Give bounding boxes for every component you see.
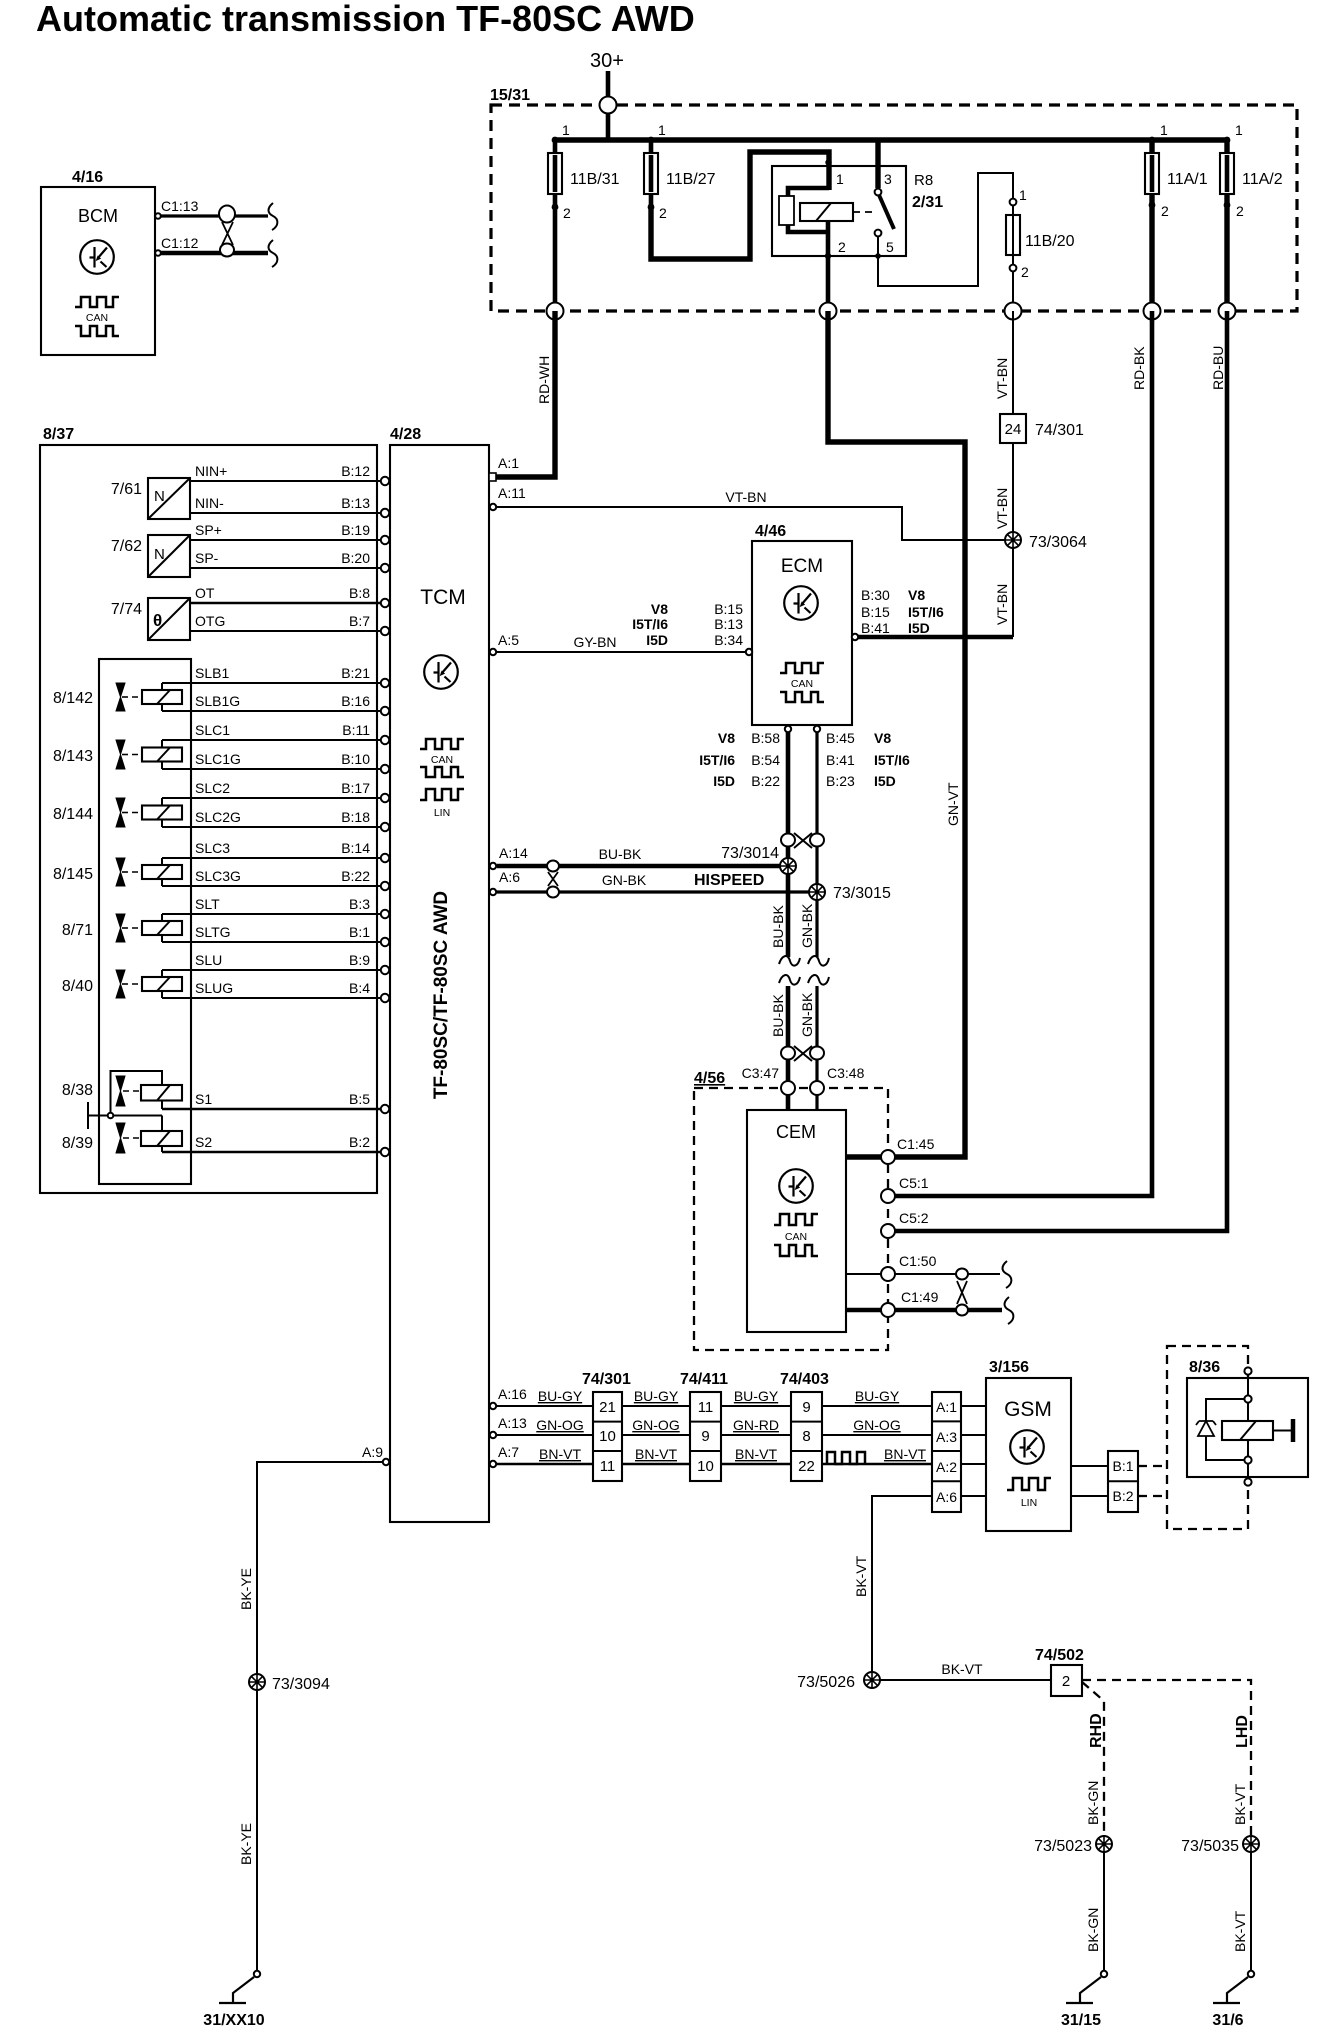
wire SLUG <box>162 997 381 999</box>
svg-text:10: 10 <box>697 1458 714 1475</box>
svg-text:A:14: A:14 <box>499 845 528 861</box>
svg-text:74/411: 74/411 <box>680 1371 728 1388</box>
solenoid 8/145 <box>53 858 182 886</box>
svg-text:CEM: CEM <box>776 1122 816 1142</box>
wire GN-BK (break to CEM C3:48) <box>815 986 818 1110</box>
svg-text:BK-VT: BK-VT <box>853 1555 869 1597</box>
svg-text:B:3: B:3 <box>349 896 370 912</box>
dashed wire RHD <box>1082 1682 1104 1836</box>
wire C5:2 (CEM to RD-BU) <box>888 311 1227 1231</box>
svg-text:74/301: 74/301 <box>582 1371 631 1388</box>
inner solenoid box <box>99 659 191 1184</box>
wire break GN-BK lower <box>808 975 829 985</box>
wire 11B/27 to relay coil pin 1 <box>651 152 829 259</box>
twisted pair symbol ECM CAN <box>781 833 824 848</box>
svg-text:V8: V8 <box>874 730 891 746</box>
svg-text:73/3014: 73/3014 <box>721 845 779 862</box>
svg-text:2: 2 <box>563 205 571 221</box>
svg-text:NIN-: NIN- <box>195 495 224 511</box>
wire VT-BN (TCM A:11 to splice 73/3064) <box>494 507 1005 540</box>
wire SLC1G <box>162 768 381 770</box>
relay pin 3 wire <box>875 140 880 188</box>
svg-text:A:1: A:1 <box>498 455 519 471</box>
wire ECM B:41 to VT-BN <box>855 635 1013 640</box>
wire BK-VT (splice to 74/502) <box>880 1679 1051 1681</box>
svg-text:B:45: B:45 <box>826 730 855 746</box>
svg-text:SLB1G: SLB1G <box>195 693 240 709</box>
wire SLB1G <box>162 710 381 712</box>
wire GY-BN (TCM A:5 to ECM) <box>497 651 746 653</box>
svg-text:2: 2 <box>1021 264 1029 280</box>
svg-text:B:17: B:17 <box>341 780 370 796</box>
splice 73/3094 <box>249 1674 330 1693</box>
wire break symbol C1:13 <box>269 203 278 230</box>
svg-text:I5T/I6: I5T/I6 <box>908 604 944 620</box>
svg-text:B:41: B:41 <box>861 620 890 636</box>
wire SLTG <box>162 941 381 943</box>
relay 8/36 terminal circles <box>1244 1367 1251 1374</box>
K symbol BCM <box>80 240 114 274</box>
wire BU-GY (TCM A:16 to 74/301) <box>497 1405 593 1407</box>
wire GN-VT (relay pin2 to CEM C1:45) <box>828 311 965 1157</box>
wire BCM C1:12 <box>161 251 268 256</box>
svg-text:CAN: CAN <box>431 754 453 766</box>
svg-text:B:4: B:4 <box>349 980 370 996</box>
ground 31/6 <box>1212 1971 1254 2029</box>
svg-text:73/5023: 73/5023 <box>1034 1838 1092 1855</box>
svg-text:BN-VT: BN-VT <box>539 1446 581 1462</box>
svg-text:B:34: B:34 <box>714 632 743 648</box>
svg-text:SLC3G: SLC3G <box>195 868 241 884</box>
svg-text:A:16: A:16 <box>498 1386 527 1402</box>
control module CEM <box>747 1110 846 1332</box>
control module ECM 4/46 <box>752 523 852 725</box>
wire BU-GY (74/301 to 74/411) <box>622 1405 690 1407</box>
connector block B:1/B:2 <box>1108 1451 1138 1512</box>
CAN symbol ECM <box>780 663 824 673</box>
svg-text:RHD: RHD <box>1088 1713 1105 1748</box>
relay 8/36 bypass loop <box>1206 1399 1245 1460</box>
svg-text:73/3064: 73/3064 <box>1029 534 1087 551</box>
junction node S1/S2 common <box>88 1102 162 1129</box>
connector circle GN-VT on fusebox edge <box>820 303 837 320</box>
svg-text:VT-BN: VT-BN <box>994 488 1010 529</box>
svg-text:1: 1 <box>658 122 666 138</box>
wire SP+ <box>190 539 381 541</box>
svg-text:SLB1: SLB1 <box>195 665 229 681</box>
svg-text:BU-GY: BU-GY <box>634 1388 679 1404</box>
wire A:9 (TCM to ground) <box>257 1462 383 1674</box>
svg-text:N: N <box>154 546 165 563</box>
svg-text:4/56: 4/56 <box>694 1070 725 1087</box>
wire NIN+ <box>190 480 381 482</box>
svg-text:C5:2: C5:2 <box>899 1210 929 1226</box>
svg-text:GN-OG: GN-OG <box>853 1417 900 1433</box>
ECM bottom pins <box>785 726 791 732</box>
wire break BU-BK lower <box>779 975 800 985</box>
svg-text:21: 21 <box>599 1399 616 1416</box>
wire 11B/20 pin 2 down <box>1012 271 1014 311</box>
dashed wire LHD <box>1082 1680 1251 1836</box>
fuse 11B/31 <box>548 122 620 311</box>
svg-text:A:13: A:13 <box>498 1415 527 1431</box>
twisted pair symbol at CEM <box>781 1046 824 1061</box>
svg-text:CAN: CAN <box>791 678 813 690</box>
svg-text:B:9: B:9 <box>349 952 370 968</box>
control module BCM 4/16 <box>41 169 155 355</box>
wire SLU <box>162 969 381 971</box>
wire break C1:50 <box>1003 1261 1012 1288</box>
svg-text:RD-WH: RD-WH <box>536 356 552 404</box>
svg-text:CAN: CAN <box>86 312 108 324</box>
fuse 11B/20 <box>1006 187 1075 311</box>
connector 74/403 <box>780 1371 829 1481</box>
svg-text:2: 2 <box>1161 203 1169 219</box>
svg-text:9: 9 <box>802 1399 810 1416</box>
svg-text:SP-: SP- <box>195 550 219 566</box>
svg-text:C1:45: C1:45 <box>897 1136 935 1152</box>
svg-text:CAN: CAN <box>785 1231 807 1243</box>
svg-text:B:12: B:12 <box>341 463 370 479</box>
svg-text:C3:48: C3:48 <box>827 1065 865 1081</box>
svg-text:BN-VT: BN-VT <box>635 1446 677 1462</box>
CAN symbol BCM <box>75 297 119 307</box>
svg-text:4/46: 4/46 <box>755 523 786 540</box>
fuse box 15/31 (dashed enclosure) <box>490 87 1297 311</box>
svg-text:GN-BK: GN-BK <box>799 992 815 1037</box>
svg-text:B:15: B:15 <box>861 604 890 620</box>
fuse 11A/1 <box>1145 122 1208 311</box>
svg-text:B:14: B:14 <box>341 840 370 856</box>
splice 73/3064 <box>1005 532 1087 551</box>
svg-text:11B/31: 11B/31 <box>570 171 620 188</box>
relay R8 2/31 <box>772 140 1013 311</box>
connector 74/502 pin 2 <box>1035 1647 1084 1696</box>
solenoid 8/38 (S1) <box>62 1071 182 1112</box>
svg-text:1: 1 <box>836 171 844 187</box>
wire S2 <box>162 1151 381 1154</box>
svg-text:GN-RD: GN-RD <box>733 1417 779 1433</box>
TCM pin circles B-rows <box>381 477 389 1156</box>
svg-text:1: 1 <box>1019 187 1027 203</box>
svg-text:I5T/I6: I5T/I6 <box>632 616 668 632</box>
svg-text:74/301: 74/301 <box>1035 422 1084 439</box>
svg-text:3: 3 <box>884 171 892 187</box>
svg-text:B:1: B:1 <box>349 924 370 940</box>
svg-text:B:30: B:30 <box>861 587 890 603</box>
svg-text:B:18: B:18 <box>341 809 370 825</box>
wire SLC2 <box>162 797 381 799</box>
svg-text:22: 22 <box>798 1458 815 1475</box>
svg-text:BU-BK: BU-BK <box>770 994 786 1037</box>
svg-text:A:11: A:11 <box>498 485 526 501</box>
svg-text:I5D: I5D <box>908 620 930 636</box>
wire NIN- <box>190 512 381 514</box>
svg-text:BU-GY: BU-GY <box>855 1388 900 1404</box>
wire OTG <box>190 630 381 632</box>
svg-text:B:16: B:16 <box>341 693 370 709</box>
solenoid 8/71 <box>62 914 182 942</box>
wire break BU-BK upper <box>779 956 800 966</box>
svg-text:GY-BN: GY-BN <box>573 634 616 650</box>
wire break C1:49 <box>1005 1297 1014 1324</box>
diode 8/36 <box>1198 1421 1214 1436</box>
connector circle VT-BN on fusebox edge <box>1005 303 1022 320</box>
svg-text:8/37: 8/37 <box>43 426 74 443</box>
svg-text:7/62: 7/62 <box>111 538 142 555</box>
wire GN-BK (ECM B:45 down) <box>815 732 818 957</box>
svg-text:B:15: B:15 <box>714 601 743 617</box>
wire C5:1 (CEM to RD-BK) <box>888 311 1152 1196</box>
svg-text:SLC3: SLC3 <box>195 840 230 856</box>
wire SLT <box>162 913 381 915</box>
svg-text:A:3: A:3 <box>936 1429 957 1445</box>
svg-text:B:20: B:20 <box>341 550 370 566</box>
ECM pin B:41 right <box>852 634 858 640</box>
wire C1:49 <box>846 1308 1002 1313</box>
svg-text:I5T/I6: I5T/I6 <box>699 752 735 768</box>
svg-text:C1:49: C1:49 <box>901 1289 939 1305</box>
svg-text:B:7: B:7 <box>349 613 370 629</box>
wire BK-VT (splice to ground 31/6) <box>1250 1852 1252 1971</box>
svg-text:B:10: B:10 <box>341 751 370 767</box>
wire BU-BK (break to CEM C3:47) <box>786 986 791 1110</box>
svg-text:2: 2 <box>1236 203 1244 219</box>
svg-text:BK-GN: BK-GN <box>1085 1908 1101 1952</box>
svg-text:9: 9 <box>701 1428 709 1445</box>
K symbol GSM <box>1010 1430 1044 1464</box>
splice 73/3015 <box>809 884 891 902</box>
svg-text:BN-VT: BN-VT <box>884 1446 926 1462</box>
K symbol CEM <box>779 1169 813 1203</box>
svg-text:S1: S1 <box>195 1091 212 1107</box>
svg-text:SLTG: SLTG <box>195 924 231 940</box>
svg-text:2: 2 <box>1062 1673 1070 1690</box>
svg-text:B:2: B:2 <box>1112 1488 1133 1504</box>
fuse 11B/27 <box>644 122 716 221</box>
wire BN-VT with LIN pulse (74/403 to GSM A:2) <box>822 1463 932 1466</box>
svg-text:SLC1: SLC1 <box>195 722 230 738</box>
svg-text:RD-BK: RD-BK <box>1131 346 1147 390</box>
svg-text:GN-BK: GN-BK <box>799 903 815 948</box>
svg-text:I5D: I5D <box>646 632 668 648</box>
svg-text:I5D: I5D <box>874 773 896 789</box>
svg-text:BK-GN: BK-GN <box>1085 1781 1101 1825</box>
svg-text:8/142: 8/142 <box>53 690 93 707</box>
svg-text:8/39: 8/39 <box>62 1135 93 1152</box>
svg-text:LIN: LIN <box>1021 1497 1037 1509</box>
wire GSM A:6 to BK-VT <box>872 1496 932 1674</box>
svg-text:10: 10 <box>599 1428 616 1445</box>
wire SP- <box>190 567 381 569</box>
svg-text:B:58: B:58 <box>751 730 780 746</box>
svg-text:GN-VT: GN-VT <box>945 782 961 826</box>
relay armature <box>779 196 794 225</box>
wire GN-OG (TCM A:13 to 74/301) <box>497 1434 593 1436</box>
relay switch contact 3 <box>875 189 882 196</box>
solenoid 8/40 <box>62 970 182 998</box>
svg-text:BU-GY: BU-GY <box>538 1388 583 1404</box>
svg-text:24: 24 <box>1005 421 1022 438</box>
svg-text:VT-BN: VT-BN <box>994 358 1010 399</box>
svg-text:SLC2: SLC2 <box>195 780 230 796</box>
connector circle RD-BU on fusebox edge <box>1219 303 1236 320</box>
svg-text:11A/2: 11A/2 <box>1242 171 1283 188</box>
node 30+ supply <box>590 50 624 140</box>
CEM pin C3:48 circle <box>810 1081 824 1095</box>
control module TCM 4/28 <box>390 426 489 1522</box>
wire BK-GN (splice to ground 31/15) <box>1103 1852 1105 1971</box>
twisted pair symbol HISPEED <box>547 861 559 898</box>
svg-text:74/502: 74/502 <box>1035 1647 1084 1664</box>
svg-text:R8: R8 <box>914 172 933 189</box>
svg-text:C5:1: C5:1 <box>899 1175 929 1191</box>
relay pin 1 marker <box>825 159 831 165</box>
svg-text:SLC2G: SLC2G <box>195 809 241 825</box>
svg-text:8/144: 8/144 <box>53 806 93 823</box>
svg-text:C1:12: C1:12 <box>161 235 199 251</box>
wire SLC2G <box>162 826 381 828</box>
svg-text:B:13: B:13 <box>341 495 370 511</box>
svg-text:GN-OG: GN-OG <box>632 1417 679 1433</box>
svg-text:2: 2 <box>659 205 667 221</box>
svg-text:8/145: 8/145 <box>53 866 93 883</box>
svg-text:BK-YE: BK-YE <box>238 1568 254 1610</box>
wire VT-BN (74/301 to ECM B:41) <box>1012 443 1014 637</box>
dashed connector box 4/56 <box>694 1070 888 1350</box>
svg-text:NIN+: NIN+ <box>195 463 227 479</box>
wire BU-BK (ECM B:58 down) <box>786 732 791 957</box>
svg-text:BU-GY: BU-GY <box>734 1388 779 1404</box>
relay 8/36 dashed enclosure <box>1167 1346 1248 1529</box>
solenoid 8/142 <box>53 683 182 711</box>
twisted pair symbol C1:50/C1:49 <box>956 1269 968 1316</box>
svg-text:B:13: B:13 <box>714 616 743 632</box>
wire VT-BN (11B/20 to splice 73/3064) <box>1012 311 1014 414</box>
solenoid 8/39 (S2) <box>62 1116 182 1154</box>
relay coil winding <box>800 203 853 221</box>
twisted pair symbol BCM <box>219 206 235 257</box>
dashed wire B:2 to 8/36 <box>1138 1495 1167 1497</box>
svg-text:LIN: LIN <box>434 807 450 819</box>
svg-text:B:8: B:8 <box>349 585 370 601</box>
dashed wire B:1 to 8/36 <box>1138 1465 1167 1467</box>
svg-text:A:2: A:2 <box>936 1459 957 1475</box>
svg-text:7/74: 7/74 <box>111 601 142 618</box>
svg-text:73/5035: 73/5035 <box>1181 1838 1239 1855</box>
LIN symbol TCM <box>420 789 464 800</box>
sensor 7/74 (temperature) <box>111 598 190 640</box>
wire SLC1 <box>162 739 381 741</box>
svg-text:4/16: 4/16 <box>72 169 103 186</box>
wire break symbol C1:12 <box>269 240 278 267</box>
svg-text:31/15: 31/15 <box>1061 2012 1101 2029</box>
svg-text:7/61: 7/61 <box>111 481 142 498</box>
wire BN-VT (TCM A:7 to 74/301) <box>497 1463 593 1466</box>
wire SLB1 <box>162 682 381 684</box>
svg-text:TF-80SC/TF-80SC AWD: TF-80SC/TF-80SC AWD <box>431 891 452 1099</box>
wire C1:50 <box>846 1273 1000 1275</box>
svg-text:C3:47: C3:47 <box>742 1065 780 1081</box>
svg-text:4/28: 4/28 <box>390 426 421 443</box>
wire GN-BK HISPEED (TCM A:6 to splice 73/3015) <box>497 890 817 893</box>
svg-text:BK-YE: BK-YE <box>238 1823 254 1865</box>
svg-text:B:2: B:2 <box>349 1134 370 1150</box>
splice 73/3014 <box>721 845 796 874</box>
svg-text:8/71: 8/71 <box>62 922 93 939</box>
CAN symbol CEM <box>774 1214 818 1225</box>
CAN symbol TCM <box>420 739 464 749</box>
connector 74/301 pin 24 <box>1000 414 1084 443</box>
svg-text:SLUG: SLUG <box>195 980 233 996</box>
svg-text:8/143: 8/143 <box>53 748 93 765</box>
relay 8/36 coil <box>1222 1421 1273 1440</box>
svg-text:A:7: A:7 <box>498 1444 519 1460</box>
svg-text:TCM: TCM <box>420 586 466 609</box>
wire stubs GSM cells to GSM <box>961 1406 986 1496</box>
svg-text:B:41: B:41 <box>826 752 855 768</box>
svg-text:30+: 30+ <box>590 50 624 72</box>
svg-text:B:23: B:23 <box>826 773 855 789</box>
relay pin 5 wire <box>878 173 1013 286</box>
wire S1 <box>162 1108 381 1111</box>
connector circle RD-BK on fusebox edge <box>1144 303 1161 320</box>
svg-text:B:54: B:54 <box>751 752 780 768</box>
wire GSM to B:1 <box>1071 1465 1108 1467</box>
sensor 7/62 (N) <box>111 535 190 577</box>
connector circle RD-WH on fusebox edge <box>547 303 564 320</box>
solenoid 8/143 <box>53 740 182 769</box>
svg-text:BCM: BCM <box>78 206 118 226</box>
svg-text:SLC1G: SLC1G <box>195 751 241 767</box>
svg-text:11A/1: 11A/1 <box>1167 171 1208 188</box>
connector block GSM A-pins <box>932 1392 961 1512</box>
svg-text:VT-BN: VT-BN <box>994 584 1010 625</box>
svg-text:5: 5 <box>886 239 894 255</box>
svg-text:V8: V8 <box>908 587 925 603</box>
svg-text:BK-VT: BK-VT <box>1232 1783 1248 1825</box>
fuse 11A/2 <box>1220 122 1283 311</box>
connector 74/411 <box>680 1371 728 1481</box>
svg-text:74/403: 74/403 <box>780 1371 829 1388</box>
connector circle 30+ on fusebox edge <box>600 97 617 114</box>
svg-text:11: 11 <box>600 1458 616 1475</box>
svg-text:2/31: 2/31 <box>912 194 943 211</box>
svg-text:N: N <box>154 488 165 505</box>
wire GN-OG (74/301 to 74/411) <box>622 1434 690 1436</box>
solenoid 8/144 <box>53 798 182 827</box>
CEM pin C1:50 circle <box>881 1267 895 1281</box>
svg-text:2: 2 <box>838 239 846 255</box>
CEM pin C1:49 circle <box>881 1303 895 1317</box>
svg-text:73/3094: 73/3094 <box>272 1676 330 1693</box>
svg-text:B:5: B:5 <box>349 1091 370 1107</box>
svg-text:3/156: 3/156 <box>989 1359 1029 1376</box>
wire BN-VT (74/301 to 74/411) <box>622 1463 690 1466</box>
svg-text:BU-BK: BU-BK <box>599 846 642 862</box>
wire BN-VT (74/411 to 74/403) <box>721 1463 791 1466</box>
sensor 7/61 (N) <box>111 478 190 519</box>
wire BU-BK HISPEED (TCM A:14 to splice 73/3014) <box>497 864 788 869</box>
svg-text:B:1: B:1 <box>1112 1458 1133 1474</box>
wire BU-GY (74/403 to GSM A:1) <box>822 1405 932 1407</box>
svg-text:VT-BN: VT-BN <box>725 489 766 505</box>
svg-text:11: 11 <box>698 1399 714 1416</box>
svg-text:I5D: I5D <box>713 773 735 789</box>
svg-text:RD-BU: RD-BU <box>1210 346 1226 390</box>
splice 73/5026 <box>797 1672 880 1691</box>
svg-text:HISPEED: HISPEED <box>694 872 764 889</box>
